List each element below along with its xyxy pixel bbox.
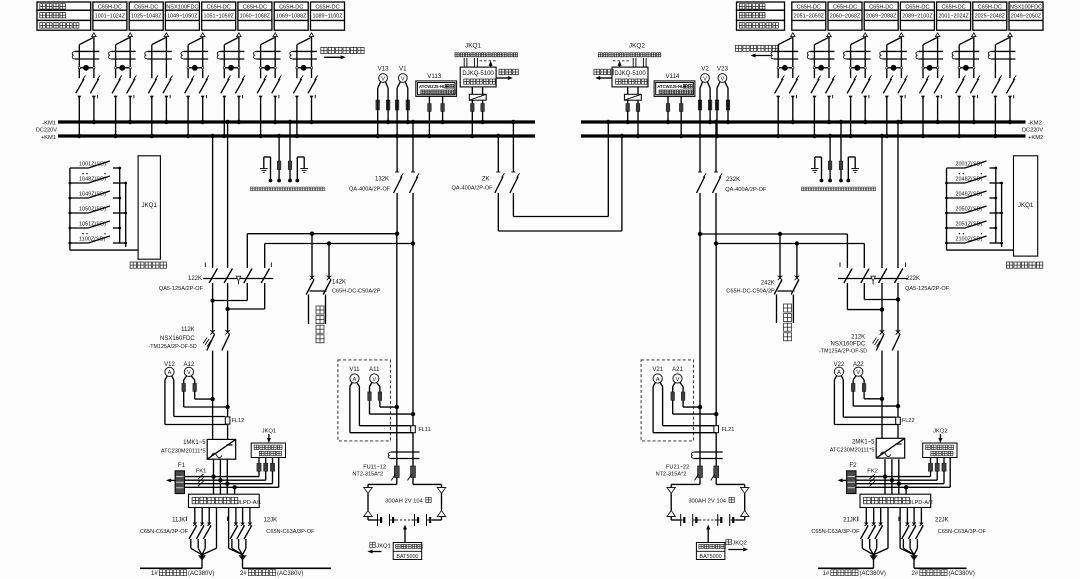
fuse-holder symbol	[883, 50, 907, 52]
ground test lead left	[264, 156, 271, 158]
breaker poles	[811, 79, 819, 94]
svg-text:QA-400A/2P-OF: QA-400A/2P-OF	[452, 186, 494, 192]
svg-text:JKQ1: JKQ1	[465, 43, 481, 50]
svg-text:C65H-DC-C50A/2P: C65H-DC-C50A/2P	[726, 288, 775, 294]
ground test lead right	[848, 156, 855, 158]
svg-text:2049~2050Z: 2049~2050Z	[1011, 14, 1042, 20]
svg-text:1#: 1#	[823, 571, 830, 577]
test branch 14ZK C65H-DC-C50A/2P	[311, 234, 313, 278]
svg-text:V114: V114	[666, 73, 681, 80]
svg-text:C65N-C63A/3P-OF: C65N-C63A/3P-OF	[811, 529, 860, 535]
svg-text:C65H-DC-C50A/2P: C65H-DC-C50A/2P	[332, 288, 381, 294]
bus -KM1 / +KM1 section 1	[58, 120, 535, 123]
wire to buses	[885, 96, 889, 99]
svg-text:1MK1~5: 1MK1~5	[183, 440, 206, 446]
svg-text:JKQ2: JKQ2	[629, 43, 645, 50]
wire ammeter across shunt 2	[663, 425, 714, 427]
svg-text:JKQ1: JKQ1	[262, 428, 277, 434]
svg-text:A: A	[656, 377, 660, 383]
svg-text:DC220V: DC220V	[1022, 128, 1043, 134]
wire 12ZK risers from buses	[212, 136, 214, 268]
svg-text:V: V	[676, 377, 680, 383]
svg-text:1025~1048Z: 1025~1048Z	[131, 14, 162, 20]
wire feeder drop	[92, 33, 96, 37]
svg-text:V: V	[721, 76, 725, 82]
rail upper section1	[247, 233, 397, 235]
svg-text:C65H-DC: C65H-DC	[243, 4, 267, 10]
svg-text:A11: A11	[369, 367, 380, 373]
wire V12 across shunt	[174, 416, 226, 418]
svg-text:1060~1068Z: 1060~1068Z	[240, 14, 271, 20]
voltage test fuse wire 1	[829, 136, 831, 161]
svg-text:QA5-125A/2P-OF: QA5-125A/2P-OF	[905, 286, 950, 292]
svg-text:C65H-DC: C65H-DC	[797, 4, 821, 10]
wire to buses	[993, 96, 997, 99]
svg-text:142K: 142K	[332, 279, 346, 285]
svg-text:V13: V13	[378, 65, 390, 72]
svg-text:C65N-C63A/3P-OF: C65N-C63A/3P-OF	[938, 529, 987, 535]
svg-text:FU21~22: FU21~22	[666, 465, 689, 471]
svg-text:2069~2088Z: 2069~2088Z	[866, 14, 897, 20]
svg-text:2060~2068Z: 2060~2068Z	[830, 14, 861, 20]
svg-text:+KM1: +KM1	[41, 135, 56, 141]
svg-text:1051~1059Z: 1051~1059Z	[203, 14, 234, 20]
wire cable funnel 21JK	[887, 508, 889, 549]
label to insulation monitor (right)	[736, 45, 779, 51]
wire 11ZK to charger	[212, 351, 214, 440]
wire cable funnel 12JK	[228, 508, 230, 549]
svg-text:C65H-DC: C65H-DC	[978, 4, 1002, 10]
ground test lead right	[297, 156, 304, 158]
wire V1 to buses	[396, 96, 398, 136]
svg-text:2#: 2#	[240, 571, 247, 577]
svg-text:C65H-DC: C65H-DC	[134, 4, 158, 10]
label test circuit (vertical)	[316, 306, 324, 343]
svg-text:2MK1~5: 2MK1~5	[852, 439, 875, 445]
svg-text:DJKQ-5100: DJKQ-5100	[462, 71, 494, 77]
fuse-holder battery 2	[694, 451, 723, 453]
shunt FL11	[411, 426, 416, 433]
breaker poles	[920, 79, 928, 94]
wire V22 across shunt	[843, 416, 895, 418]
fuse-holder symbol	[220, 50, 244, 52]
svg-text:BAT5000: BAT5000	[700, 554, 722, 560]
breaker poles	[293, 79, 301, 94]
svg-text:-KM1: -KM1	[42, 121, 56, 127]
svg-text:V: V	[372, 377, 376, 383]
wire to buses	[295, 96, 299, 99]
svg-text:JKQ1: JKQ1	[1018, 202, 1034, 209]
svg-text:V21: V21	[652, 367, 663, 373]
AC distribution unit JLPD-A/1	[189, 494, 260, 507]
svg-text:JLPD-A/2: JLPD-A/2	[909, 500, 933, 506]
signal lamp	[778, 67, 793, 69]
svg-text:JKQ1: JKQ1	[376, 543, 391, 549]
rail upper section2	[700, 233, 847, 235]
svg-text:C65H-DC: C65H-DC	[315, 4, 339, 10]
svg-text:NSX160FDC: NSX160FDC	[160, 336, 195, 342]
wire 13ZK to rails	[396, 193, 398, 234]
svg-text:(AC380V): (AC380V)	[860, 571, 886, 577]
svg-text:A: A	[168, 370, 172, 376]
svg-text:242K: 242K	[761, 280, 775, 286]
AC incoming line 2 label 2	[914, 567, 967, 569]
wire feeder drop	[309, 33, 313, 37]
svg-text:(AC380V): (AC380V)	[949, 571, 975, 577]
wire feeder drop	[201, 33, 205, 37]
charger input breaker 11ZK NSX160FDC	[210, 330, 215, 335]
svg-text:ATCWZJ5-HL9: ATCWZJ5-HL9	[419, 84, 448, 89]
feeder column 1060~1068Z	[238, 2, 272, 30]
svg-text:QA-400A/2P-OF: QA-400A/2P-OF	[349, 186, 391, 192]
wire collector left	[69, 168, 71, 250]
wire V13 to buses	[377, 96, 379, 136]
surge arresters 2	[930, 458, 932, 464]
feeder column 2069~2088Z	[864, 2, 898, 30]
battery meters dashed box 2	[641, 360, 694, 441]
fuse-holder symbol	[846, 50, 870, 52]
wire feeder drop	[827, 33, 831, 37]
svg-text:NSX160FDC: NSX160FDC	[831, 341, 866, 347]
surge arresters 1	[258, 458, 260, 464]
wire 23ZK to rails	[699, 193, 701, 234]
wire ZK tie to section 2	[497, 193, 499, 231]
wire feeder drop	[273, 33, 277, 37]
fuse-holder symbol	[75, 50, 99, 52]
charger AC leads 1	[213, 459, 215, 494]
feeder column 2051~2059Z	[792, 2, 826, 30]
svg-text:1049~1050Z: 1049~1050Z	[167, 14, 198, 20]
ground test lead left	[815, 156, 822, 158]
svg-text:JKQ2: JKQ2	[732, 541, 747, 547]
svg-text:JLPD-A/1: JLPD-A/1	[237, 500, 261, 506]
feeder column 2049~2050Z	[1009, 2, 1043, 30]
svg-text:1069~1088Z: 1069~1088Z	[276, 14, 307, 20]
svg-text:C65N-C63A/3P-OF: C65N-C63A/3P-OF	[140, 529, 189, 535]
wire collector right	[119, 168, 121, 243]
wire A22 to trunks	[864, 398, 882, 400]
signal lamp	[851, 67, 866, 69]
wire ZK risers	[497, 136, 499, 172]
fuse-holder symbol	[991, 50, 1015, 52]
wire JKQ1 to buses	[471, 100, 473, 103]
svg-text:300AH 2V 104: 300AH 2V 104	[385, 498, 423, 504]
signal lamp	[79, 67, 94, 69]
svg-text:V: V	[187, 370, 191, 376]
svg-text:V2: V2	[701, 65, 709, 72]
svg-text:ATCWZJ5-HL9: ATCWZJ5-HL9	[657, 84, 686, 89]
svg-text:FL21: FL21	[722, 427, 735, 433]
svg-text:212K: 212K	[851, 334, 865, 340]
svg-text:C65H-DC: C65H-DC	[905, 4, 929, 10]
feeder column 1069~1088Z	[274, 2, 308, 30]
signal lamp	[116, 67, 131, 69]
battery monitor BAT5000 2	[707, 529, 709, 543]
signal lamp	[887, 67, 902, 69]
svg-text:112K: 112K	[181, 327, 195, 333]
fuse-holder symbol	[774, 50, 798, 52]
svg-text:FK2: FK2	[867, 469, 878, 475]
svg-text:222K: 222K	[906, 276, 920, 282]
svg-text:NSX100FDC: NSX100FDC	[166, 4, 198, 10]
fuse-holder battery 1	[391, 451, 420, 453]
shunt FL21	[714, 426, 719, 433]
transducer under JKQ1	[471, 87, 473, 94]
AC incoming line 1 label 1	[140, 567, 202, 569]
svg-text:+KM2: +KM2	[1028, 135, 1043, 141]
wire 22ZK pole links	[897, 283, 899, 300]
breaker poles	[221, 79, 229, 94]
svg-text:2001~2024Z: 2001~2024Z	[938, 14, 969, 20]
wire cable funnel 22JK	[899, 508, 901, 549]
feeder column 1001~1024Z	[93, 2, 127, 30]
breaker poles	[148, 79, 156, 94]
svg-text:A: A	[837, 370, 841, 376]
fuse-holder symbol	[111, 50, 135, 52]
svg-text:F2: F2	[849, 462, 857, 469]
wire rail bends to 22ZK	[846, 234, 848, 268]
wire AC horizontals 1	[185, 476, 260, 478]
svg-text:FL12: FL12	[232, 418, 245, 424]
label to JKQ2	[726, 539, 731, 544]
wire to buses	[77, 96, 81, 99]
wire collector right	[995, 168, 997, 243]
label test circuit right (vertical)	[784, 304, 792, 341]
svg-text:V23: V23	[717, 65, 729, 72]
breaker poles	[775, 79, 783, 94]
svg-text:ZK: ZK	[482, 176, 490, 182]
wire feeder drop	[1008, 33, 1012, 37]
wire to buses	[921, 96, 925, 99]
wire feeder drop	[972, 33, 976, 37]
wire to buses	[259, 96, 263, 99]
svg-text:V11: V11	[349, 367, 360, 373]
fuse-holder symbol	[184, 50, 208, 52]
feeder column 2001~2024Z	[937, 2, 971, 30]
wire battery spread 2	[699, 477, 701, 484]
breaker poles	[847, 79, 855, 94]
feeder column 1089~1100Z	[311, 2, 345, 30]
svg-text:DJKQ-5100: DJKQ-5100	[614, 71, 646, 77]
svg-text:C65H-DC: C65H-DC	[869, 4, 893, 10]
wire 12ZK pole links	[212, 283, 214, 301]
svg-text:JKQ2: JKQ2	[933, 428, 948, 434]
feeder column 2089~2100Z	[900, 2, 934, 30]
wire V2 to buses	[699, 96, 701, 136]
signal lamp	[188, 67, 203, 69]
fuse-holder symbol	[256, 50, 280, 52]
charger AC leads 2	[884, 459, 886, 494]
wire 13ZK risers	[396, 136, 398, 172]
svg-text:132K: 132K	[375, 176, 389, 182]
signal lamp	[224, 67, 239, 69]
svg-text:V: V	[401, 76, 405, 82]
svg-text:FU11~12: FU11~12	[363, 465, 386, 471]
feeder column 2060~2068Z	[828, 2, 862, 30]
wire feeder drop	[237, 33, 241, 37]
svg-text:C65H-DC: C65H-DC	[279, 4, 303, 10]
svg-text:BAT5000: BAT5000	[396, 554, 418, 560]
svg-text:122K: 122K	[188, 276, 202, 282]
wire 21ZK to charger	[881, 351, 883, 439]
breaker poles	[76, 79, 84, 94]
wire A12 to trunks	[195, 398, 213, 400]
feeder table header	[37, 2, 91, 10]
svg-text:ATC230M20111*5: ATC230M20111*5	[830, 448, 875, 454]
signal lamp	[959, 67, 974, 69]
wire feeder drop	[899, 33, 903, 37]
svg-text:C65H-DC: C65H-DC	[98, 4, 122, 10]
wire to buses	[222, 96, 226, 99]
signal lamp	[814, 67, 829, 69]
feeder table header	[737, 2, 785, 10]
wire 23ZK risers	[699, 136, 701, 172]
svg-text:V1: V1	[399, 65, 407, 72]
svg-text:-TM125A/2P-OF-5D: -TM125A/2P-OF-5D	[819, 348, 867, 354]
fuse-holder symbol	[810, 50, 834, 52]
svg-text:300AH 2V 104: 300AH 2V 104	[688, 498, 726, 504]
svg-text:11JK: 11JK	[172, 518, 185, 524]
centralized monitor JKQ1 block	[1014, 156, 1038, 256]
battery trunk wires 2	[699, 234, 701, 466]
svg-text:QA5-125A/2P-OF: QA5-125A/2P-OF	[159, 286, 204, 292]
svg-text:NSX100FDC: NSX100FDC	[1010, 4, 1042, 10]
svg-text:A: A	[353, 377, 357, 383]
svg-text:12JK: 12JK	[264, 518, 278, 524]
svg-text:A21: A21	[672, 367, 683, 373]
wire feeder drop	[935, 33, 939, 37]
svg-text:C65N-C63A/3P-OF: C65N-C63A/3P-OF	[266, 529, 315, 535]
svg-text:JKQ1: JKQ1	[141, 202, 157, 209]
svg-text:21JK: 21JK	[843, 518, 857, 524]
wire V113 to buses	[428, 96, 430, 103]
wire 22ZK risers from buses	[881, 136, 883, 268]
battery trunk wires 1	[396, 234, 398, 466]
fuse-holder symbol	[919, 50, 943, 52]
wire voltmeter to battery trunks 2	[683, 406, 700, 408]
wire rail bends to 12ZK	[246, 234, 248, 268]
label to backend (right)	[594, 69, 613, 75]
svg-text:C65H-DC: C65H-DC	[207, 4, 231, 10]
svg-text:232K: 232K	[726, 177, 740, 183]
wire 22ZK outputs to 21ZK	[897, 300, 899, 333]
fuse-holder symbol	[955, 50, 979, 52]
fuse-holder symbol	[293, 50, 317, 52]
label bus voltage remote measurement	[802, 187, 876, 191]
svg-text:F1: F1	[178, 462, 186, 469]
breaker poles	[185, 79, 193, 94]
wire to buses	[957, 96, 961, 99]
wire to buses	[186, 96, 190, 99]
rail lower section2	[716, 243, 864, 245]
wire battery spread 1	[396, 477, 398, 484]
wire to buses	[776, 96, 780, 99]
svg-text:NT2-315A*2: NT2-315A*2	[656, 472, 687, 478]
wire to buses	[114, 96, 118, 99]
svg-text:NT2-315A*2: NT2-315A*2	[352, 472, 383, 478]
breaker poles	[883, 79, 891, 94]
svg-text:22JK: 22JK	[935, 518, 949, 524]
shunt FL12	[225, 417, 230, 424]
label centralized monitor	[130, 262, 166, 268]
svg-text:2089~2100Z: 2089~2100Z	[902, 14, 933, 20]
svg-text:QA-400A/2P-OF: QA-400A/2P-OF	[725, 187, 767, 193]
bus -KM2 / +KM2 section 2	[581, 120, 1026, 123]
feeder column 1025~1048Z	[129, 2, 163, 30]
svg-text:-KM2: -KM2	[1028, 121, 1042, 127]
svg-text:V: V	[856, 370, 860, 376]
wire V114 to buses	[667, 96, 669, 103]
svg-text:(AC380V): (AC380V)	[188, 571, 214, 577]
wire cable funnel 11JK	[216, 508, 218, 549]
label to backend (left)	[499, 69, 518, 75]
AC distribution unit JLPD-A/2	[860, 494, 931, 507]
feeder column 1051~1059Z	[202, 2, 236, 30]
svg-text:FK1: FK1	[196, 469, 207, 475]
signal lamp	[261, 67, 276, 69]
svg-text:ATC230M20111*5: ATC230M20111*5	[161, 448, 206, 454]
svg-text:2#: 2#	[912, 571, 919, 577]
signal lamp	[923, 67, 938, 69]
breaker poles	[992, 79, 1000, 94]
battery meters dashed box 1	[338, 360, 391, 441]
label bus voltage remote measurement	[251, 187, 325, 191]
wire V23 to buses	[716, 96, 718, 136]
wire feeder drop	[863, 33, 867, 37]
svg-text:C65H-DC: C65H-DC	[941, 4, 965, 10]
wire voltmeter to battery trunks 1	[380, 406, 397, 408]
wire feeder drop	[791, 33, 795, 37]
breaker poles	[956, 79, 964, 94]
breaker poles	[112, 79, 120, 94]
voltage test fuse wire 2	[289, 122, 291, 161]
wire collector left	[946, 168, 948, 250]
svg-text:(AC380V): (AC380V)	[277, 571, 303, 577]
svg-text:C65H-DC: C65H-DC	[833, 4, 857, 10]
shunt FL22	[896, 417, 901, 424]
wire 12ZK outputs to 11ZK	[212, 301, 214, 333]
svg-text:2051~2059Z: 2051~2059Z	[794, 14, 825, 20]
wire ammeter across shunt 1	[359, 425, 410, 427]
voltage test fuse wire 1	[278, 136, 280, 161]
label centralized monitor	[1006, 262, 1042, 268]
svg-text:V113: V113	[427, 73, 442, 80]
battery monitor BAT5000 1	[404, 529, 406, 543]
wire feeder drop	[128, 33, 132, 37]
svg-text:1#: 1#	[151, 571, 158, 577]
AC incoming line 1 label 2	[818, 567, 874, 569]
svg-text:V: V	[381, 76, 385, 82]
svg-text:FL22: FL22	[902, 418, 915, 424]
wire AC horizontals 2	[856, 476, 931, 478]
feeder column 2025~2048Z	[973, 2, 1007, 30]
test branch 24ZK C65H-DC-C50A/2P	[779, 234, 781, 278]
svg-text:1001~1024Z: 1001~1024Z	[95, 14, 126, 20]
fuse-holder symbol	[148, 50, 172, 52]
svg-text:V: V	[703, 76, 707, 82]
svg-text:-TM125A/2P-OF-5D: -TM125A/2P-OF-5D	[148, 344, 196, 350]
wire to buses	[150, 96, 154, 99]
wire JKQ2 to buses	[627, 100, 629, 103]
AC incoming line 2 label 1	[243, 567, 332, 569]
voltage test fuse wire 2	[840, 122, 842, 161]
transducer under JKQ2	[627, 87, 629, 94]
feeder column 1049~1050Z	[165, 2, 199, 30]
rail lower section1	[265, 243, 413, 245]
breaker poles	[257, 79, 265, 94]
centralized monitor JKQ1 block	[138, 156, 160, 259]
svg-text:1089~1100Z: 1089~1100Z	[312, 14, 343, 20]
